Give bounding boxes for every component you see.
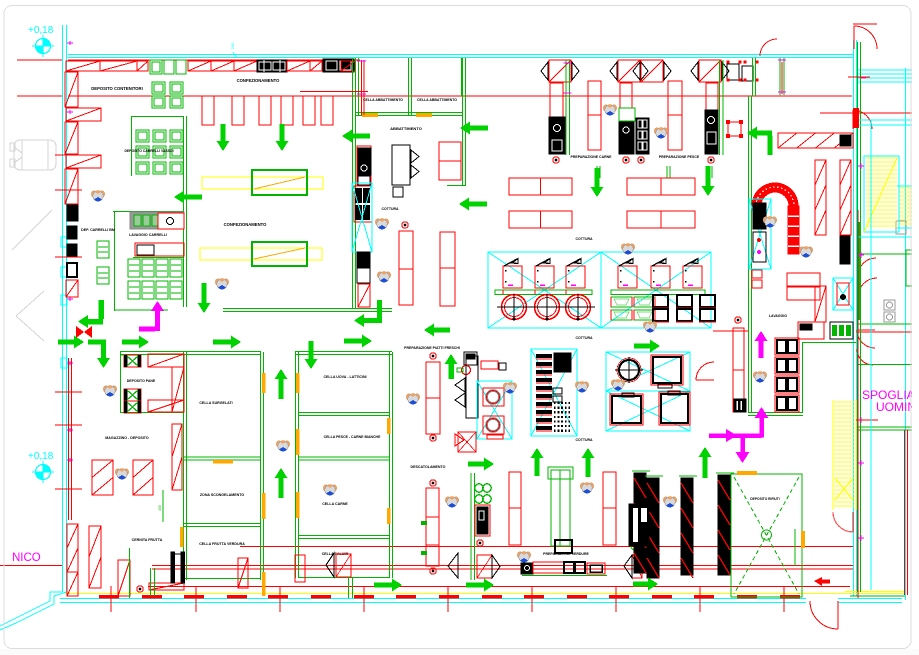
svg-text:CONFEZIONAMENTO: CONFEZIONAMENTO <box>224 222 267 227</box>
svg-text:PREPARAZIONE PESCE: PREPARAZIONE PESCE <box>659 155 700 159</box>
svg-text:DEP. CARRELLI BM: DEP. CARRELLI BM <box>81 228 115 232</box>
svg-text:COTTURA: COTTURA <box>575 237 593 241</box>
svg-text:CONFEZIONAMENTO: CONFEZIONAMENTO <box>237 78 280 83</box>
svg-text:400: 400 <box>158 505 162 511</box>
svg-text:ZONA SCONGELAMENTO: ZONA SCONGELAMENTO <box>200 493 245 497</box>
svg-text:COTTURA: COTTURA <box>575 438 593 442</box>
svg-text:CELLA FRUTTA VERDURA: CELLA FRUTTA VERDURA <box>199 542 245 546</box>
svg-text:NICO: NICO <box>12 552 41 564</box>
svg-text:CELLA UOVA - LATTICINI: CELLA UOVA - LATTICINI <box>323 375 366 379</box>
svg-text:CELLA ABBATTIMENTO: CELLA ABBATTIMENTO <box>417 98 457 102</box>
svg-text:+0,18: +0,18 <box>28 451 54 462</box>
svg-text:CELLA PESCE - CARNE BIANCHE: CELLA PESCE - CARNE BIANCHE <box>324 435 382 439</box>
svg-text:COTTURA: COTTURA <box>575 336 593 340</box>
svg-text:200: 200 <box>230 42 235 49</box>
svg-text:DEPOSITO RIFIUTI: DEPOSITO RIFIUTI <box>750 497 780 501</box>
svg-text:UOMIN: UOMIN <box>876 400 916 414</box>
svg-text:CELLA ABBATTIMENTO: CELLA ABBATTIMENTO <box>363 98 403 102</box>
svg-text:COTTURA: COTTURA <box>381 207 399 211</box>
svg-text:CELLA CARNE: CELLA CARNE <box>322 502 348 506</box>
svg-text:LAVAGGIO CARRELLI: LAVAGGIO CARRELLI <box>129 233 167 237</box>
svg-text:DESCATOLAMENTO: DESCATOLAMENTO <box>411 465 446 469</box>
svg-text:DEPOSITO CARRELLI VASSOI: DEPOSITO CARRELLI VASSOI <box>124 149 173 153</box>
svg-text:CERNITA FRUTTA: CERNITA FRUTTA <box>132 538 163 542</box>
svg-text:PREPARAZIONE VERDURE: PREPARAZIONE VERDURE <box>543 552 589 556</box>
svg-text:DEPOSITO CONTENITORI: DEPOSITO CONTENITORI <box>91 86 143 91</box>
svg-text:CELLA SURGELATI: CELLA SURGELATI <box>199 401 232 405</box>
svg-text:DEPOSITO PANE: DEPOSITO PANE <box>127 379 156 383</box>
svg-text:+0,18: +0,18 <box>28 25 54 36</box>
svg-text:PREPARAZIONE CARNE: PREPARAZIONE CARNE <box>571 155 613 159</box>
svg-text:ABBATTIMENTO: ABBATTIMENTO <box>390 126 422 131</box>
svg-text:LAVAGGIO: LAVAGGIO <box>769 314 787 318</box>
svg-text:MAGAZZINO - DEPOSITO: MAGAZZINO - DEPOSITO <box>105 436 149 440</box>
svg-text:PREPARAZIONE PIATTI FRESCHI: PREPARAZIONE PIATTI FRESCHI <box>404 346 460 350</box>
